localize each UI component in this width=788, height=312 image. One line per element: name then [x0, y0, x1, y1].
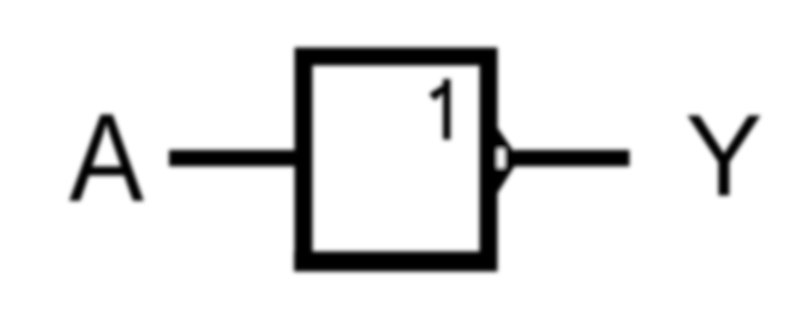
box bottom edge (thicker) — [294, 252, 498, 272]
svg-text:A: A — [69, 88, 145, 228]
label "1" stem (IEC function label) — [443, 79, 451, 140]
wire (input, A to gate) — [169, 150, 295, 166]
notch (white slot inside negation wedge) — [498, 149, 505, 168]
wire (output, gate to Y) — [514, 150, 630, 166]
inverter U1 (IEC "1" box body) — [304, 57, 489, 263]
negation indicator (output wedge/bubble) — [497, 127, 519, 194]
label "1" flag — [430, 85, 443, 101]
svg-text:Y: Y — [685, 90, 763, 220]
